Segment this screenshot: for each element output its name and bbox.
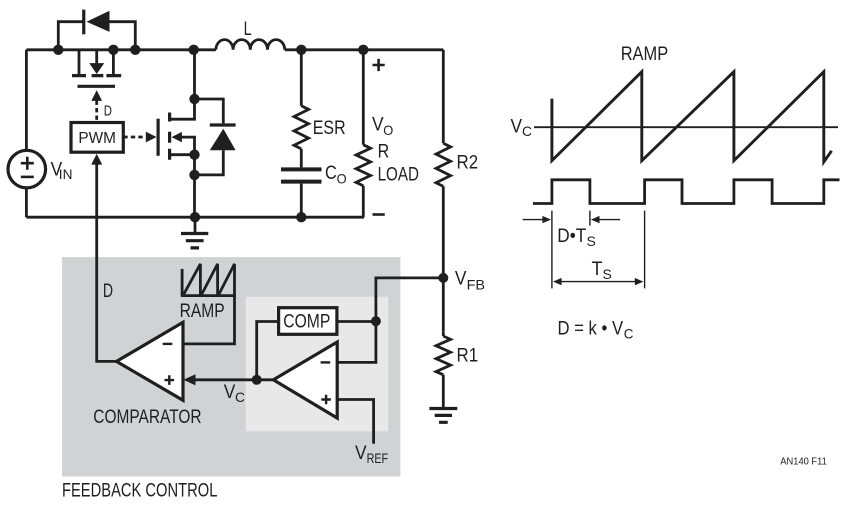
svg-text:R1: R1 [457,346,479,367]
svg-text:C: C [624,326,634,342]
svg-text:O: O [337,170,347,186]
svg-text:L: L [244,19,252,40]
svg-text:V: V [224,382,236,403]
svg-text:V: V [355,443,367,464]
svg-text:COMP: COMP [283,312,330,333]
svg-text:AN140 F11: AN140 F11 [780,456,827,467]
svg-text:V: V [372,115,384,136]
svg-text:R2: R2 [457,153,479,174]
svg-text:V: V [455,268,467,289]
svg-text:C: C [235,389,245,405]
svg-text:RAMP: RAMP [621,44,669,65]
svg-text:D•T: D•T [557,226,586,247]
svg-text:T: T [592,259,603,280]
svg-text:PWM: PWM [78,130,116,147]
svg-text:RAMP: RAMP [180,301,225,322]
svg-text:LOAD: LOAD [378,165,419,186]
svg-text:O: O [383,122,393,138]
svg-text:S: S [587,233,596,249]
svg-text:C: C [522,123,532,139]
svg-text:IN: IN [59,166,73,182]
svg-text:S: S [603,266,612,282]
svg-text:V: V [511,117,523,138]
svg-text:FEEDBACK CONTROL: FEEDBACK CONTROL [62,481,217,502]
svg-text:COMPARATOR: COMPARATOR [93,407,201,428]
svg-text:C: C [325,163,337,184]
svg-text:FB: FB [467,277,486,293]
svg-text:REF: REF [367,450,389,466]
svg-text:ESR: ESR [313,118,346,139]
svg-text:D = k • V: D = k • V [558,319,624,340]
svg-text:D: D [103,281,113,302]
svg-text:R: R [378,142,390,163]
svg-text:D: D [104,103,112,120]
